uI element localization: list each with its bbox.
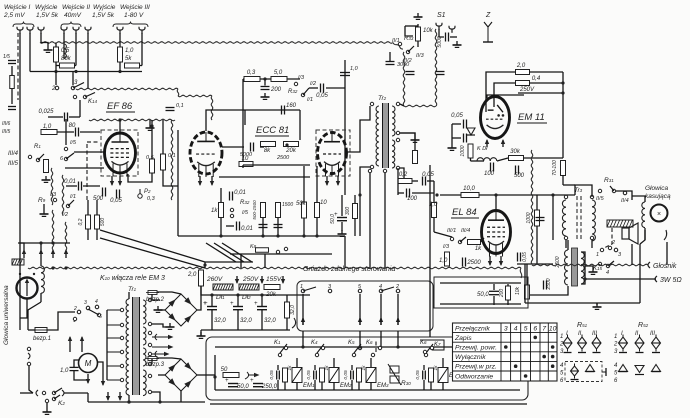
label I/5 grid bbox=[70, 140, 77, 146]
R51 row 1 bbox=[560, 334, 563, 340]
socket wire b bbox=[359, 294, 361, 325]
output transformer primary bbox=[565, 250, 569, 285]
chain vert right EF86 bbox=[171, 120, 173, 200]
svg-text:0,05: 0,05 bbox=[451, 113, 463, 119]
relay wires 2 bbox=[314, 365, 316, 370]
svg-text:2,0: 2,0 bbox=[516, 63, 526, 69]
wire cap to rail bbox=[326, 87, 345, 89]
svg-text:4: 4 bbox=[379, 284, 382, 290]
socket arrow c bbox=[379, 317, 383, 325]
capacitor left edge a bbox=[8, 61, 16, 64]
label K7 bbox=[434, 342, 441, 348]
svg-text:III/5: III/5 bbox=[2, 129, 11, 135]
diagonal fan 5 bbox=[222, 243, 252, 262]
diagonal fan 2 bbox=[100, 238, 205, 268]
capacitor 0,01 ecc2 bbox=[237, 222, 253, 233]
label 80k bbox=[61, 56, 72, 62]
label K6 mid bbox=[366, 340, 373, 346]
svg-text:3W 5Ω: 3W 5Ω bbox=[660, 277, 682, 284]
wire x537 down bbox=[536, 195, 538, 210]
junction head bus2 bbox=[51, 241, 54, 244]
capacitor 1,0 motor bbox=[70, 367, 79, 370]
switch K6 mid bbox=[371, 346, 381, 356]
wire tr3 bot conn bbox=[565, 240, 567, 248]
wire head coil bot bbox=[40, 293, 42, 302]
Tr1 sec term f bbox=[148, 362, 151, 365]
svg-text:2: 2 bbox=[51, 86, 56, 92]
wire el plate bbox=[495, 195, 497, 210]
capacitor 5000 bbox=[251, 143, 254, 152]
svg-text:III/4: III/4 bbox=[8, 151, 19, 157]
label k1 5 bbox=[99, 314, 102, 320]
remote contact 1 bbox=[600, 246, 611, 251]
svg-text:+: + bbox=[225, 378, 229, 384]
svg-text:1500: 1500 bbox=[282, 202, 293, 208]
svg-text:II/5: II/5 bbox=[596, 196, 605, 202]
wire term8 drop bbox=[141, 33, 143, 66]
junction ecc bott4 bbox=[315, 234, 318, 237]
triode ECC81a envelope bbox=[190, 132, 222, 177]
bottom rail left bbox=[88, 401, 205, 403]
relay wires c 1 bbox=[284, 382, 286, 390]
svg-text:EL 84: EL 84 bbox=[452, 207, 477, 218]
svg-text:+: + bbox=[250, 378, 254, 384]
erase head circle bbox=[651, 205, 668, 222]
R52 row 3 bbox=[614, 349, 618, 355]
svg-text:3000: 3000 bbox=[397, 62, 410, 68]
label 5000 bbox=[240, 152, 253, 158]
svg-text:1: 1 bbox=[560, 334, 563, 340]
R51 lower dashed box bbox=[565, 362, 602, 382]
bridge2 in top bbox=[151, 294, 153, 300]
wire term5 drop bbox=[75, 33, 77, 66]
label socket 5 bbox=[358, 284, 362, 290]
resistor 415 bbox=[413, 151, 418, 164]
chain from sel3 bbox=[76, 88, 213, 120]
svg-text:2: 2 bbox=[395, 284, 399, 290]
horizontal 262 bbox=[205, 261, 253, 263]
junction em2 bbox=[561, 91, 564, 94]
label 1,5V 5k b bbox=[92, 12, 115, 19]
transformer Tr1 core bbox=[133, 297, 140, 395]
plate1 up bbox=[206, 110, 245, 131]
wire tr3 to em bbox=[575, 185, 592, 197]
R51 diode col 1 bbox=[563, 335, 572, 352]
svg-text:III: III bbox=[650, 331, 655, 337]
Tr2 terminal 5 bbox=[396, 138, 399, 141]
capacitor 80 bbox=[69, 123, 79, 137]
chain K10 bus bbox=[28, 267, 430, 269]
junction fb bbox=[263, 77, 266, 80]
resistor 2,0 psu bbox=[199, 270, 204, 286]
svg-text:2,5 mV: 2,5 mV bbox=[3, 12, 25, 19]
input terminal 7 bbox=[117, 27, 123, 34]
R52 col III bbox=[650, 331, 655, 337]
label II/3 bbox=[416, 53, 425, 59]
pot P2 bbox=[138, 189, 151, 198]
svg-text:Wejście II: Wejście II bbox=[62, 4, 90, 11]
svg-text:100: 100 bbox=[407, 196, 418, 202]
label 32,0 d bbox=[290, 305, 296, 315]
label 155V bbox=[266, 276, 282, 283]
junction k10 b bbox=[64, 266, 67, 269]
svg-text:10: 10 bbox=[242, 156, 249, 162]
relay wires c 2 bbox=[321, 382, 323, 390]
capacitor 0,05 relay 3 bbox=[351, 371, 354, 380]
transformer Tr1 primary bbox=[126, 299, 129, 395]
label 6 bbox=[60, 156, 64, 162]
wire left edge a bbox=[11, 66, 13, 75]
svg-text:0,2: 0,2 bbox=[78, 218, 84, 225]
label k1 2 bbox=[73, 306, 77, 312]
R52 col II bbox=[635, 331, 639, 337]
vert socket c bbox=[380, 331, 382, 347]
svg-text:R9: R9 bbox=[38, 197, 46, 204]
capacitor e2 bbox=[274, 225, 283, 228]
wire left mid2 bbox=[96, 200, 98, 215]
ground term3 bbox=[44, 46, 53, 52]
capacitor 0,01 ecc1 bbox=[230, 190, 246, 201]
wire left rail low bbox=[20, 392, 33, 394]
svg-text:20k: 20k bbox=[265, 292, 277, 298]
resistor 10 ecc bbox=[239, 156, 253, 167]
Tr3 term d bbox=[590, 236, 593, 239]
svg-text:1,5V 5k: 1,5V 5k bbox=[36, 12, 59, 19]
diagonal fan 3 bbox=[206, 243, 236, 262]
Tr1 primary tap 338 bbox=[107, 336, 124, 339]
arrow out b3 bbox=[152, 351, 170, 357]
wire row193c bbox=[440, 194, 461, 196]
arrow EM11 b bbox=[501, 139, 505, 147]
svg-text:5,0: 5,0 bbox=[274, 70, 283, 76]
svg-text:ECC 81: ECC 81 bbox=[256, 125, 289, 136]
wire cath2 bbox=[83, 185, 100, 187]
label I/1 top bbox=[307, 97, 313, 103]
wire em conn c bbox=[487, 95, 524, 98]
wire row195b bbox=[412, 192, 434, 194]
svg-text:7: 7 bbox=[542, 326, 546, 333]
glowica univ label bbox=[3, 285, 10, 345]
label 1,5V 5k a bbox=[36, 12, 59, 19]
label Wejscie II bbox=[62, 4, 90, 11]
label 50,0 rp bbox=[477, 292, 489, 298]
coupling wire bbox=[177, 130, 179, 236]
ground arrow EF86 k2 bbox=[118, 176, 122, 186]
resistor 1k relay 3 bbox=[357, 368, 362, 382]
chain head 3 bbox=[52, 210, 54, 250]
vert socket b bbox=[359, 331, 361, 347]
svg-text:300: 300 bbox=[345, 207, 351, 216]
fuse bezp1 bbox=[33, 328, 49, 333]
head arrow 3 bbox=[51, 249, 55, 258]
vert socket d bbox=[397, 331, 399, 347]
transformer Tr2 core bbox=[383, 103, 389, 168]
label 2,0 psu bbox=[187, 272, 197, 278]
terminal S1 b bbox=[449, 26, 455, 33]
svg-text:50: 50 bbox=[221, 367, 228, 373]
svg-text:III/6: III/6 bbox=[2, 121, 11, 127]
wire 1k dn bbox=[220, 218, 222, 236]
label 50,0 mid bbox=[330, 214, 336, 224]
wire k1 b bbox=[81, 345, 83, 352]
ground arrow ECC1 b bbox=[210, 176, 214, 186]
R52 bar 1 bbox=[619, 352, 627, 354]
lever relay 3 bbox=[354, 344, 361, 353]
label 1500v bbox=[282, 202, 293, 208]
Tr1 primary tap 380 bbox=[107, 378, 124, 381]
wire fuse left bbox=[28, 329, 35, 331]
wire 560 to tr3 bbox=[563, 184, 575, 186]
Tr2 terminal 6 bbox=[396, 166, 399, 169]
wire rp rail2 bbox=[440, 303, 521, 305]
coil em bbox=[477, 158, 497, 161]
wire cath1 bbox=[66, 185, 77, 187]
label 3000 bbox=[397, 62, 410, 68]
svg-text:1: 1 bbox=[614, 334, 617, 340]
Tr1 sec term h bbox=[148, 390, 151, 393]
svg-text:2: 2 bbox=[613, 341, 618, 347]
wire sel drop bbox=[55, 72, 57, 86]
ground arrow EL84 b bbox=[499, 256, 503, 266]
relay in wire2 bbox=[214, 355, 216, 390]
svg-text:1,0: 1,0 bbox=[350, 66, 359, 72]
switch K1 c4 bbox=[95, 305, 98, 308]
wire ot prim bot bbox=[525, 286, 568, 295]
R51 lower diode bbox=[571, 364, 579, 379]
vert gniazdo right bbox=[429, 268, 431, 337]
vert x205 drop bbox=[204, 262, 206, 268]
underline EL84 bbox=[451, 217, 479, 219]
svg-text:500-1500: 500-1500 bbox=[252, 200, 257, 220]
input terminal 2 bbox=[27, 27, 33, 34]
svg-text:EF 86: EF 86 bbox=[107, 101, 133, 112]
R51 bar 2 bbox=[578, 352, 586, 354]
resistor 100 mid2 bbox=[353, 204, 358, 219]
bridge3 in top2 bbox=[157, 358, 181, 359]
wire 100 mid2 up bbox=[354, 195, 356, 203]
R52 diode col 2 bbox=[635, 335, 644, 352]
wire 430 vert long bbox=[429, 165, 431, 268]
K7 loop bbox=[420, 340, 444, 350]
capacitor 0,05 em b bbox=[464, 134, 467, 143]
R51 row 4 bbox=[560, 363, 564, 369]
svg-text:200: 200 bbox=[499, 289, 505, 299]
arrow under k1 b bbox=[80, 336, 84, 345]
label Glosnik bbox=[653, 263, 677, 270]
switch III grid bbox=[28, 154, 44, 162]
hook arrow k2 left bbox=[36, 390, 38, 396]
label 5k bbox=[125, 56, 132, 62]
cap 50,0 mid bbox=[334, 212, 347, 221]
capacitor 0,025 bbox=[38, 109, 67, 122]
contact break a bbox=[27, 347, 30, 365]
wire 1500 dn bbox=[277, 218, 279, 236]
relay wires e 2 bbox=[333, 358, 335, 367]
label K relay 1 bbox=[274, 340, 281, 346]
R52 row 1 bbox=[614, 334, 617, 340]
label 1,0 motor bbox=[60, 368, 69, 374]
wire right vert 632 bbox=[631, 244, 633, 265]
arrow motor down2 bbox=[101, 376, 105, 386]
svg-text:0,5: 0,5 bbox=[61, 48, 70, 54]
ground arrow ECC2 b bbox=[336, 176, 340, 186]
wire ot gnd bbox=[585, 266, 593, 268]
svg-text:R52: R52 bbox=[638, 322, 649, 329]
svg-text:50,0: 50,0 bbox=[477, 292, 489, 298]
resistor 1,0 el cath bbox=[445, 252, 450, 266]
psu cap wires c bbox=[261, 295, 263, 306]
antenna symbol Z bbox=[483, 22, 493, 42]
switch I/5 ecc bbox=[230, 208, 233, 217]
switch K7 bbox=[423, 346, 433, 353]
svg-text:50,0: 50,0 bbox=[237, 384, 249, 390]
svg-text:2500: 2500 bbox=[466, 260, 481, 266]
psu cap wires d bbox=[286, 295, 288, 302]
svg-text:10: 10 bbox=[549, 326, 557, 333]
switch K14 bbox=[73, 93, 95, 99]
wire ecc to tr2 bbox=[346, 106, 370, 152]
svg-text:R30: R30 bbox=[401, 380, 411, 387]
wire em row0 bbox=[471, 160, 485, 162]
head arrow 1 bbox=[22, 249, 26, 258]
wire ecc mid2 bbox=[260, 146, 264, 148]
diode D1 bbox=[467, 128, 475, 135]
vert drop tr2 b bbox=[384, 173, 386, 268]
wire x360 up bbox=[359, 195, 361, 236]
bridge rectifier bezp2 bbox=[165, 294, 197, 326]
label Wejscie III bbox=[120, 4, 150, 11]
wire left rail mid bbox=[19, 243, 21, 330]
junction el rail bbox=[435, 193, 438, 196]
resistor 1,0 el grid bbox=[432, 203, 437, 218]
svg-text:Tr2: Tr2 bbox=[378, 95, 387, 102]
label 10k out bbox=[515, 286, 521, 295]
label K relay 3 bbox=[348, 340, 355, 346]
wire em conn a bbox=[486, 72, 516, 112]
switch relay 2 bbox=[315, 346, 324, 356]
wire em supply1 bbox=[530, 71, 564, 73]
wire em rail bbox=[562, 72, 564, 158]
label plus b2 bbox=[203, 301, 207, 307]
input terminal 3 bbox=[38, 27, 44, 34]
wire head bus bbox=[18, 242, 70, 244]
tube label ECC 81 bbox=[256, 125, 289, 136]
socket arrow d bbox=[396, 317, 400, 325]
wire 50k up bbox=[303, 166, 305, 202]
relay EM<tspan font-size="4.5">4</tspan> bbox=[438, 368, 448, 383]
resistor 1k ecc bbox=[219, 203, 224, 218]
wire tr2 bot out bbox=[400, 168, 404, 181]
table grid bbox=[453, 323, 558, 381]
wire ot sec top bbox=[581, 252, 585, 279]
svg-text:Wejście III: Wejście III bbox=[120, 4, 150, 11]
wire sec a bbox=[152, 299, 160, 301]
capacitor coupling 0,1 bbox=[166, 108, 175, 111]
wire row195 bbox=[398, 192, 404, 194]
Tr1 primary tap 352 bbox=[107, 350, 124, 353]
ground 5000 bbox=[453, 41, 462, 47]
resistor 1,0 grid bbox=[41, 124, 57, 135]
hook arrow k2 right bbox=[62, 390, 64, 396]
wire break dn bbox=[29, 366, 33, 393]
remote power box bbox=[434, 277, 528, 308]
svg-text:2500: 2500 bbox=[555, 256, 561, 268]
wire cathode row ecc bbox=[219, 176, 310, 178]
svg-text:2: 2 bbox=[73, 306, 77, 312]
svg-text:0,05: 0,05 bbox=[422, 172, 434, 178]
transformer label Tr1 bbox=[128, 286, 137, 293]
resistor 8k bbox=[261, 142, 276, 155]
loop rect2 bbox=[405, 25, 418, 27]
wire k1 a bbox=[69, 345, 71, 352]
switch II/5 bbox=[598, 186, 615, 193]
label 40mV bbox=[64, 12, 82, 19]
svg-text:20k: 20k bbox=[285, 148, 297, 154]
wire x398 drop bbox=[397, 168, 399, 195]
capacitor osc b bbox=[436, 72, 445, 75]
wire sel drop3 bbox=[72, 72, 74, 86]
wire em row3 bbox=[524, 157, 564, 159]
R52 row 6 bbox=[614, 378, 618, 384]
resistor 20k bbox=[284, 142, 299, 155]
R52 lower tri 1 bbox=[619, 365, 628, 372]
pentode EL84 envelope bbox=[482, 211, 511, 257]
underline EM11 bbox=[517, 122, 547, 124]
label 10 v bbox=[320, 200, 327, 206]
switch relay 3 bbox=[352, 346, 361, 356]
svg-text:+: + bbox=[254, 301, 258, 307]
arrow 155V bbox=[281, 276, 285, 284]
bridge3 in top bbox=[151, 359, 153, 364]
resistor 1k relay 4 bbox=[429, 368, 434, 382]
junction psu b bbox=[236, 293, 239, 296]
wire erh bbox=[640, 230, 645, 244]
horizontal 254 bbox=[230, 253, 332, 255]
R52 lower tri 2 bbox=[635, 366, 644, 375]
wire r31 right bbox=[616, 191, 632, 200]
transformer Tr1 sec1 bbox=[143, 300, 146, 324]
label Wyjscie b bbox=[93, 4, 116, 11]
capacitor osc a bbox=[406, 72, 415, 75]
bridge2 left bbox=[158, 309, 165, 311]
label K2 bbox=[58, 400, 65, 407]
wire el84 grid top bbox=[436, 194, 438, 196]
label III/6 bbox=[2, 121, 11, 127]
relay wires e 4 bbox=[442, 358, 444, 367]
svg-text:0,5: 0,5 bbox=[146, 155, 155, 161]
label 1k ecc bbox=[211, 208, 218, 214]
R51 diode col 2 bbox=[578, 335, 587, 352]
svg-text:250V: 250V bbox=[519, 87, 535, 93]
wire left rail bbox=[19, 100, 21, 243]
resistor 1k el bbox=[468, 240, 483, 253]
input terminal 5 bbox=[73, 27, 79, 34]
label R32 ecc bbox=[240, 200, 250, 206]
glosnik arrow bbox=[648, 262, 650, 268]
svg-text:III/5: III/5 bbox=[8, 161, 19, 167]
svg-text:K10 włącza rele EM 3: K10 włącza rele EM 3 bbox=[100, 275, 165, 282]
label R33 bbox=[404, 36, 414, 42]
svg-text:0,05: 0,05 bbox=[269, 370, 275, 380]
tr1 taps wire bbox=[106, 310, 108, 380]
wire 10 dn bbox=[316, 218, 318, 236]
Tr3 term c bbox=[564, 236, 567, 239]
fuse bezp3 bbox=[146, 357, 159, 361]
switch K1 c3 bbox=[86, 306, 89, 309]
label R30 bbox=[401, 380, 411, 387]
wire cap row bbox=[48, 116, 63, 118]
wire motor cap bbox=[74, 360, 79, 367]
